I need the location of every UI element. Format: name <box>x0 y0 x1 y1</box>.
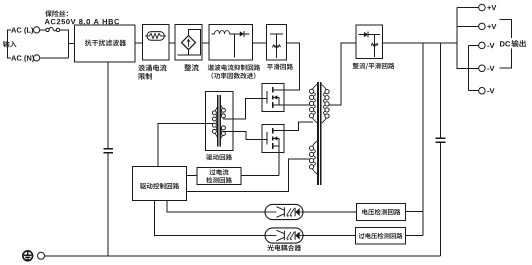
label 功率因数改进 <box>212 73 256 79</box>
fuse F1 <box>46 27 60 31</box>
block drive control <box>132 167 186 201</box>
block overcurrent detection <box>197 167 241 184</box>
block drive circuit <box>206 92 234 151</box>
wire control to photocoupler 1 <box>167 201 265 212</box>
wire voltage detection to sense <box>406 211 424 213</box>
label AC (L) <box>11 27 33 34</box>
wire drive input <box>158 123 215 166</box>
transistor Q2 box <box>262 124 284 152</box>
transistor Q1 symbol <box>267 87 279 108</box>
block output rectifier smoothing <box>356 25 383 59</box>
label 抗干扰滤波器 <box>85 39 126 46</box>
capacitor Y left <box>103 149 113 153</box>
wire stub -V3 <box>469 90 479 92</box>
wire +V trunk <box>457 8 479 69</box>
label 谐波电流抑制回路 <box>208 64 260 70</box>
wire Y-capacitor vertical top <box>440 43 442 138</box>
terminal output 3 <box>479 42 486 49</box>
wire inrush to rectifier <box>169 42 175 44</box>
block overvoltage detection <box>356 228 406 245</box>
label 光电耦合器 <box>267 245 301 251</box>
label 检测回路 <box>206 177 232 183</box>
wire Q2 drain to primary bottom <box>273 122 313 130</box>
wire pfc to smoothing <box>253 42 267 44</box>
label +V terminal 1 <box>487 5 496 10</box>
label +V terminal 2 <box>487 24 496 29</box>
wire PC2 to overvoltage detection <box>303 235 356 237</box>
block rectifier <box>175 25 202 61</box>
wire stub +V1 <box>457 7 479 9</box>
inrush limiter symbol <box>145 32 166 41</box>
label 电压检测回路 <box>362 209 400 215</box>
label DC output <box>500 40 526 47</box>
terminal AC L <box>34 27 40 33</box>
label 驱动控制回路 <box>140 183 179 189</box>
wire L to fuse <box>40 29 46 31</box>
label 整流/平滑回路 <box>353 63 395 70</box>
wire control aux supply <box>187 159 310 191</box>
wire stub -V1 <box>469 44 479 46</box>
label AC (N) <box>11 55 34 62</box>
block harmonic suppression pfc <box>209 25 253 61</box>
wire Y-capacitor vertical bottom <box>440 143 442 256</box>
transistor Q1 box <box>262 83 284 111</box>
wire drive to Q1 gate <box>223 99 267 120</box>
block noise filter <box>75 25 136 62</box>
protective earth symbol <box>23 251 33 261</box>
transformer T1 aux winding <box>309 141 317 174</box>
wire Q2 source down <box>273 146 279 175</box>
label 驱动回路 <box>206 154 232 160</box>
output diode and capacitor symbol <box>359 32 381 57</box>
wire sense vertical <box>422 43 424 236</box>
wire overcurrent to Q2 source <box>241 174 279 176</box>
input bracket <box>8 30 11 58</box>
filter ground vertical <box>107 62 109 148</box>
drive transformer core <box>218 95 221 147</box>
wire into filter <box>69 42 75 44</box>
label -V terminal 4 <box>487 66 494 71</box>
terminal output 2 <box>479 23 486 30</box>
pfc inductor and diode symbol <box>212 31 250 58</box>
bridge rectifier symbol <box>178 30 201 56</box>
wire control to overcurrent <box>187 174 197 176</box>
wire stub +V2 <box>457 25 479 27</box>
smoothing capacitor symbol <box>270 34 283 58</box>
capacitor Y right <box>436 138 446 142</box>
label -V terminal 5 <box>487 88 494 93</box>
label fuse rating <box>45 10 120 24</box>
label 平滑回路 <box>267 64 293 70</box>
label 整流 <box>184 64 198 71</box>
wire secondary to rectifier <box>329 43 356 105</box>
wire filter to inrush <box>135 42 143 44</box>
label 输入 <box>3 41 17 48</box>
ground wire <box>45 255 441 257</box>
drive transformer primary coil <box>212 106 217 139</box>
label 过电流 <box>209 169 228 175</box>
wire fuse to corner <box>60 30 69 58</box>
DC output bracket <box>499 20 511 68</box>
transformer T1 secondary winding <box>322 85 330 123</box>
label 过电压检测回路 <box>359 233 403 239</box>
wire N to corner <box>40 57 69 59</box>
wire Q1 source to primary <box>273 104 310 106</box>
wire drive to Q2 gate <box>223 132 267 140</box>
terminal output 1 <box>479 4 486 11</box>
label 浪涌电流限制 <box>138 64 166 79</box>
label -V terminal 3 <box>487 43 494 48</box>
filter ground vertical lower <box>107 154 109 256</box>
wire Q1 drain lead <box>273 89 284 91</box>
wire control to photocoupler 2 <box>154 201 265 236</box>
transformer T1 primary winding <box>309 84 317 122</box>
drive transformer secondary coils <box>220 104 225 140</box>
wire overvoltage detection to sense <box>406 235 424 237</box>
transformer T1 core <box>318 82 321 185</box>
wire smoothing to rail corner <box>284 43 300 90</box>
block smoothing <box>267 25 287 61</box>
terminal output 4 <box>479 65 486 72</box>
wire -V bracket <box>468 45 470 90</box>
block voltage detection <box>357 204 406 221</box>
terminal AC N <box>34 55 40 61</box>
transistor Q2 symbol <box>267 128 279 149</box>
photocoupler PC1 <box>265 204 303 219</box>
wire rectifier to pfc <box>202 42 209 44</box>
ground terminal <box>38 252 45 259</box>
wire PC1 to voltage detection <box>303 211 357 213</box>
wire output rail <box>383 42 458 44</box>
terminal output 5 <box>479 87 486 94</box>
block inrush current limit <box>143 25 170 61</box>
photocoupler PC2 <box>265 228 303 243</box>
